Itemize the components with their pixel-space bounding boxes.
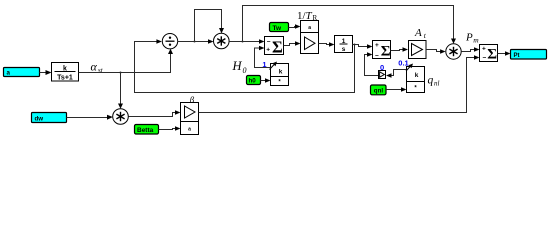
svg-text:m: m	[473, 36, 479, 45]
svg-text:Ts+1: Ts+1	[57, 75, 73, 82]
svg-text:Pt: Pt	[514, 53, 520, 59]
H0 gain block (k over *)	[270, 62, 289, 86]
output port Pt	[511, 50, 547, 60]
input port dw	[32, 113, 67, 123]
damping wire beta block to sum3 minus	[199, 55, 480, 112]
svg-text:Tw: Tw	[273, 25, 282, 32]
label alpha_st	[91, 60, 104, 75]
junction q feedback	[354, 44, 356, 46]
parameter block h0	[247, 76, 261, 85]
blue label 1	[262, 61, 267, 68]
beta gain block (triangle + a)	[181, 103, 199, 135]
product1 (multiply)	[113, 109, 129, 125]
junction on gate wire	[120, 72, 122, 74]
svg-text:h0: h0	[249, 78, 257, 85]
svg-text:Σ: Σ	[487, 46, 497, 62]
wire squarer to sum1 minus	[229, 39, 264, 44]
wire a to servo	[40, 70, 52, 75]
junction for head feedback	[242, 41, 244, 43]
svg-text:dw: dw	[35, 115, 44, 122]
svg-text:−: −	[267, 38, 271, 45]
head feedback wire to product2 top	[243, 6, 457, 44]
svg-text:a: a	[7, 70, 11, 77]
wire Tw to TR block	[289, 24, 301, 29]
svg-text:q: q	[428, 75, 434, 87]
svg-text:qnl: qnl	[374, 88, 384, 95]
label 1/TR	[297, 10, 318, 22]
svg-text:0: 0	[243, 66, 247, 75]
wire sum1 to TR block	[284, 41, 301, 46]
sum1 block	[265, 37, 284, 57]
wire servo to divider bottom (gate)	[79, 49, 174, 73]
product2 (multiply)	[446, 44, 461, 59]
wire qnl gain path to sum2 minus	[365, 52, 379, 75]
parameter block Tw	[270, 23, 289, 32]
svg-text:Σ: Σ	[272, 37, 283, 56]
svg-text:−: −	[483, 54, 487, 61]
qnl gain block (k over *)	[406, 64, 425, 93]
parameter block Betta	[135, 125, 159, 135]
svg-text:Σ: Σ	[381, 43, 391, 59]
wire integrator to sum2 plus	[353, 44, 373, 49]
servo block k/(Ts+1)	[52, 63, 79, 82]
wire qnl block to flipped gain	[386, 70, 407, 78]
label q_nl	[428, 75, 440, 88]
wire qnl to qnl block	[386, 87, 407, 92]
wire At to product2	[426, 49, 446, 54]
label H0	[232, 59, 247, 75]
svg-text:a: a	[188, 127, 191, 133]
wire H0 block to sum1 plus	[255, 46, 271, 68]
svg-text:−: −	[375, 53, 379, 60]
wire TR block to integrator	[319, 42, 335, 47]
svg-text:A: A	[414, 27, 422, 39]
label Pm	[465, 31, 479, 44]
junction for self loop	[194, 41, 196, 43]
svg-text:+: +	[266, 46, 270, 53]
TR gain block (a over triangle)	[301, 21, 319, 54]
wire divider to squarer	[178, 39, 214, 44]
wire gate down to product1	[118, 73, 123, 109]
svg-text:H: H	[232, 59, 243, 73]
svg-text:k: k	[415, 72, 419, 79]
svg-text:+: +	[375, 42, 379, 49]
wire Betta to beta block	[159, 126, 181, 131]
sum3 block	[480, 45, 498, 63]
divider circle	[162, 34, 177, 49]
wire product2 to sum3 plus	[461, 47, 479, 52]
wire dw to product1	[67, 115, 113, 120]
svg-text:P: P	[465, 31, 473, 43]
input port a	[4, 68, 40, 77]
wire sum3 to Pt	[498, 51, 511, 56]
wire sum2 to At gain	[391, 47, 409, 52]
gain At	[409, 41, 427, 59]
integrator 1/s	[335, 36, 353, 53]
svg-text:α: α	[91, 60, 98, 74]
parameter block qnl	[371, 85, 387, 95]
wire h0 to H0 block	[261, 78, 271, 83]
sum2 block	[373, 41, 391, 60]
svg-text:+: +	[482, 45, 486, 52]
small flipped gain (zero)	[379, 71, 386, 79]
svg-text:k: k	[279, 69, 283, 76]
q feedback wire (integrator to divider numerator)	[135, 39, 355, 92]
svg-text:Betta: Betta	[137, 127, 154, 134]
squarer (multiply)	[214, 33, 230, 49]
svg-text:s: s	[342, 46, 346, 53]
label At	[414, 27, 427, 40]
self loop wire (squaring)	[195, 10, 225, 42]
svg-text:nl: nl	[434, 80, 440, 88]
svg-text:a: a	[308, 25, 311, 31]
wire product1 to beta block	[129, 110, 181, 116]
